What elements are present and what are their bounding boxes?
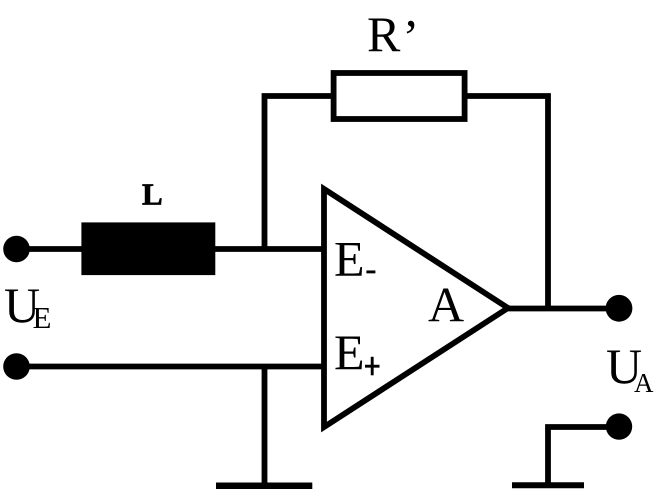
inductor L (filled body) xyxy=(81,222,215,275)
terminal dot: input UE+ (upper input terminal) xyxy=(3,236,30,263)
terminal dot: output UA (upper output terminal) xyxy=(606,295,633,322)
wire: ground branch from E+ net xyxy=(262,367,268,484)
minus sign of E- xyxy=(366,270,375,273)
ground (left ground bar) xyxy=(216,482,312,489)
ground (right ground bar) xyxy=(512,482,584,488)
plus sign of E+ (vertical stroke) xyxy=(371,357,374,376)
svg-text:A: A xyxy=(428,277,464,333)
wire: left feedback branch (up from inverting node, across to R' left) xyxy=(265,96,335,251)
wire: inverting input net (node E-) xyxy=(16,246,322,252)
resistor R' (feedback resistor body) xyxy=(334,73,465,119)
svg-text:R: R xyxy=(367,6,401,62)
op-amp A (triangle body) xyxy=(324,189,508,427)
plus sign of E+ (horizontal stroke) xyxy=(365,365,380,368)
wire: output net from op-amp apex xyxy=(508,306,607,312)
wire: right feedback branch (from R' right, down to output net) xyxy=(464,96,548,308)
svg-text:L: L xyxy=(142,177,163,212)
svg-text:’: ’ xyxy=(403,9,420,65)
wire: non-inverting input net (node E+) xyxy=(16,364,322,370)
svg-text:E: E xyxy=(334,230,365,286)
terminal dot: input UE- (lower input terminal) xyxy=(3,353,30,380)
svg-text:E: E xyxy=(33,300,52,335)
terminal dot: UA reference (lower output terminal) xyxy=(606,413,632,439)
svg-text:E: E xyxy=(334,324,365,380)
wire: UA reference branch to ground xyxy=(548,427,607,483)
svg-text:A: A xyxy=(634,368,654,398)
